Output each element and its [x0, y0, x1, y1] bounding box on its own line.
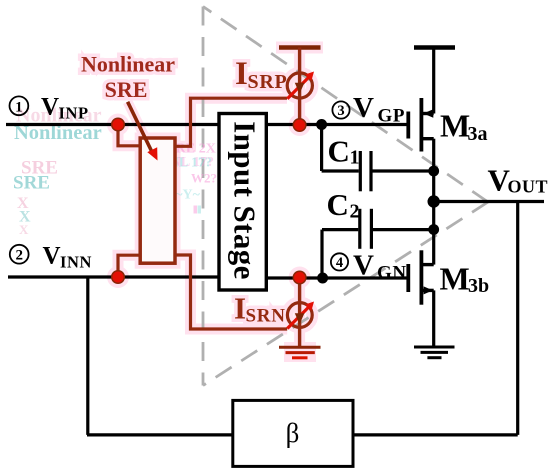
- wire ISRN vertical: [298, 278, 301, 347]
- wire node chain C1/VOUT/C2: [432, 171, 435, 230]
- current source ISRP inner arrow: [295, 83, 305, 94]
- capacitor C1: [360, 151, 371, 191]
- feedback box beta: [233, 400, 353, 466]
- svg-text:3b: 3b: [468, 275, 489, 297]
- svg-text:4: 4: [336, 255, 343, 271]
- pin 2 marker: [10, 245, 29, 264]
- transistor M3a source arrow: [423, 109, 433, 118]
- svg-text:1: 1: [350, 147, 360, 169]
- transistor M3b (NMOS): [408, 250, 433, 304]
- svg-text:M: M: [440, 108, 470, 144]
- wire SRE bottom-right to ISRN control: [175, 255, 287, 329]
- svg-text:I: I: [234, 291, 246, 326]
- svg-text:V: V: [353, 92, 374, 124]
- node dot VGN-C2 junction: [317, 273, 328, 284]
- compression ghost artifacts: [13, 105, 217, 238]
- current source ISRN circle: [287, 303, 312, 328]
- transistor M3a (PMOS): [408, 98, 433, 152]
- wire VINN input line: [8, 275, 219, 278]
- wire SRE top-right to ISRP control: [175, 98, 287, 146]
- svg-text:C: C: [327, 187, 349, 222]
- wire C2 tap vertical from VGN node: [320, 230, 323, 278]
- wire VGP line (input stage to M3a gate): [266, 123, 407, 126]
- svg-text:X: X: [19, 222, 29, 237]
- wire ISRP vertical: [298, 48, 301, 126]
- wire VDD to M3a source: [432, 48, 435, 114]
- pin 1 marker: [10, 96, 29, 115]
- svg-text:β: β: [286, 418, 300, 448]
- svg-text:SRP: SRP: [248, 71, 288, 93]
- svg-text:3a: 3a: [468, 123, 488, 145]
- wire feedback bottom right: [353, 433, 518, 436]
- wire feedback bottom left: [87, 433, 233, 436]
- node dot C1-rail junction: [428, 166, 439, 177]
- svg-text:Input Stage: Input Stage: [228, 121, 263, 280]
- wire C1 right lead: [373, 169, 434, 172]
- wire C2 left lead: [322, 228, 358, 231]
- opamp dashed triangle outline: [203, 7, 488, 386]
- pin 4 marker: [331, 253, 348, 271]
- svg-text:W2?: W2?: [191, 171, 217, 186]
- wire C2 right lead: [373, 228, 434, 231]
- node dot ISRN-VGN junction: [293, 271, 306, 284]
- svg-text:INP: INP: [59, 104, 89, 123]
- input stage box: [219, 114, 266, 291]
- current source ISRN adjust arrow: [287, 305, 310, 328]
- pin 3 marker: [332, 101, 349, 119]
- wire SRE bottom-left to VINN node: [118, 255, 139, 277]
- svg-text:SRE: SRE: [105, 77, 148, 102]
- svg-text:2: 2: [15, 248, 23, 264]
- svg-text:M: M: [440, 261, 470, 297]
- wire VOUT output line: [434, 200, 544, 203]
- wire feedback right vertical: [516, 202, 519, 435]
- wire feedback left vertical to VINN: [86, 277, 89, 435]
- wire node to M3b drain: [432, 230, 435, 265]
- svg-text:V: V: [353, 250, 374, 282]
- svg-text:C: C: [328, 134, 350, 169]
- svg-text:V: V: [41, 94, 59, 121]
- svg-text:1: 1: [15, 99, 23, 115]
- power VDD bar above ISRP: [279, 45, 321, 50]
- svg-text:2: 2: [350, 201, 360, 223]
- node dot VGP-C1 junction: [316, 119, 327, 130]
- nonlinear SRE rectangle: [140, 138, 175, 263]
- wire SRE top-left to VINP node: [118, 125, 139, 146]
- wire VGN line (input stage to M3b gate): [266, 276, 407, 279]
- svg-text:INN: INN: [60, 253, 92, 272]
- wire C1 tap vertical from VGP node: [320, 125, 323, 172]
- pink compression halo under red elements: [81, 48, 323, 363]
- transistor M3b source arrow: [424, 286, 433, 294]
- node dot VOUT-rail junction: [428, 195, 440, 207]
- annotation arrow to SRE: [128, 102, 152, 151]
- capacitor C2: [360, 209, 372, 249]
- svg-text:GN: GN: [377, 263, 407, 284]
- svg-text:I: I: [235, 56, 248, 92]
- svg-text:SRE: SRE: [13, 173, 50, 194]
- wire M3a drain down to node: [432, 139, 435, 171]
- current source ISRN inner arrow: [295, 313, 305, 324]
- wire C1 left lead: [322, 169, 359, 172]
- svg-text:GP: GP: [378, 106, 406, 127]
- node dot C2-rail junction: [428, 224, 439, 235]
- svg-text:V: V: [43, 242, 61, 269]
- svg-text:3: 3: [337, 103, 344, 119]
- node dot VINP-SRE junction: [112, 118, 125, 131]
- ground under ISRN: [279, 346, 321, 349]
- wire VINP input line: [6, 123, 219, 126]
- svg-text:SRN: SRN: [246, 306, 286, 327]
- current source ISRP adjust arrow: [287, 76, 310, 99]
- ground under M3b: [414, 347, 455, 358]
- wire M3b source to ground: [432, 290, 435, 347]
- svg-text:Nonlinear: Nonlinear: [81, 52, 175, 77]
- power VDD bar above M3a: [414, 45, 455, 50]
- svg-text:OUT: OUT: [508, 177, 549, 197]
- node dot VINN-SRE junction: [112, 271, 125, 284]
- current source ISRP circle: [287, 73, 312, 98]
- node dot ISRP-VGP junction: [293, 119, 306, 132]
